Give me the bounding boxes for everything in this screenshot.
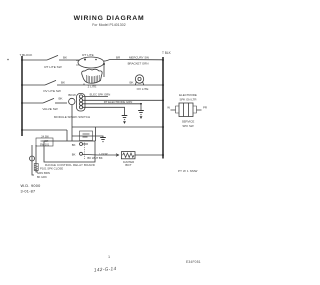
wire BK label	[59, 97, 63, 101]
ground G2	[122, 116, 128, 120]
handwritten note	[94, 266, 117, 273]
motor M1	[30, 156, 35, 161]
doc code	[186, 260, 201, 264]
ground G3	[100, 138, 106, 142]
coil BK/W	[69, 98, 75, 104]
relay K1 box	[80, 131, 93, 141]
svg-text:SPK SW: SPK SW	[182, 124, 194, 128]
lamp shade	[82, 69, 102, 83]
lamp RT LITE (fluorescent)	[78, 57, 104, 68]
wire igniter rung	[83, 153, 120, 156]
svg-text:GRN BRN: GRN BRN	[37, 171, 50, 175]
igniter R1	[121, 152, 135, 159]
wire igniter to bus	[135, 154, 163, 156]
connector receptacle right	[179, 93, 197, 97]
wire rung1 right	[104, 60, 163, 62]
switch RT LITE SW	[47, 55, 58, 60]
wire module to board	[71, 105, 73, 141]
arrow	[116, 154, 119, 157]
svg-text:VALVE SW: VALVE SW	[42, 107, 57, 111]
wire electrode 3	[83, 107, 125, 115]
svg-text:3-01-87: 3-01-87	[21, 190, 36, 194]
wire rung3 to module	[55, 102, 67, 104]
svg-text:PT W 1 NMW: PT W 1 NMW	[178, 169, 198, 173]
wire ground feeder	[72, 136, 103, 137]
svg-text:BK: BK	[72, 143, 76, 147]
svg-text:For Model P1401302: For Model P1401302	[92, 23, 125, 27]
junction dots	[162, 59, 164, 61]
lamp OV LITE	[135, 75, 143, 83]
switch OV LITE SW	[45, 80, 56, 85]
svg-text:LOOP: LOOP	[99, 152, 107, 156]
relay board	[44, 141, 95, 162]
svg-text:OV LITE SW: OV LITE SW	[43, 89, 61, 93]
svg-text:BK/W: BK/W	[68, 93, 76, 97]
switch VALVE SW	[43, 98, 54, 103]
svg-text:BK: BK	[72, 153, 76, 157]
wire label mercury sw	[129, 55, 149, 59]
svg-text:MERCURY SW: MERCURY SW	[129, 55, 149, 59]
left bus L1	[21, 56, 23, 136]
spark module U1	[77, 94, 86, 112]
svg-text:BK: BK	[63, 55, 67, 59]
svg-text:SERVICE: SERVICE	[182, 119, 195, 123]
svg-text:SPK GN LTR: SPK GN LTR	[180, 98, 197, 102]
wire rung4	[22, 129, 67, 131]
svg-text:BK: BK	[59, 97, 63, 101]
subtitle For Model	[92, 23, 125, 27]
footer part number	[21, 184, 41, 188]
ground G1	[83, 104, 141, 111]
svg-text:W.D. 9000: W.D. 9000	[21, 184, 41, 188]
svg-text:BK WHT BK: BK WHT BK	[87, 156, 102, 160]
speck	[7, 59, 9, 61]
door switch box	[41, 136, 49, 139]
wire rung2 right	[57, 84, 163, 86]
resistor element	[34, 164, 38, 171]
wire rung1 mid	[59, 59, 80, 61]
wire electrode 1	[83, 96, 108, 98]
svg-text:OV LITE: OV LITE	[137, 87, 149, 91]
note PT W	[178, 169, 198, 173]
svg-text:BRACKET GRN: BRACKET GRN	[128, 61, 149, 65]
svg-text:W: W	[167, 106, 170, 110]
svg-text:RT LITE SW: RT LITE SW	[44, 65, 61, 69]
wire rung3 left	[22, 102, 43, 104]
wire rung2 left	[22, 84, 45, 86]
page number	[108, 255, 110, 259]
door circuit wires	[32, 145, 34, 175]
svg-text:BK GRN: BK GRN	[37, 176, 47, 179]
svg-text:RT LITE: RT LITE	[82, 53, 93, 57]
wire shade leads	[84, 64, 104, 85]
wire line A to bus	[72, 126, 163, 128]
svg-text:PR: PR	[203, 106, 207, 110]
wire BR label	[116, 56, 121, 60]
svg-text:ELEC SPK GRN: ELEC SPK GRN	[90, 92, 111, 96]
svg-text:P101 SPK CLOSE: P101 SPK CLOSE	[40, 167, 63, 171]
wire BK label rung2	[61, 80, 65, 84]
svg-text:BK: BK	[130, 81, 134, 85]
svg-text:ELECTRODE: ELECTRODE	[179, 93, 197, 97]
svg-text:1: 1	[108, 255, 110, 259]
terminal block label right	[162, 51, 172, 55]
wire electrode 2	[83, 99, 163, 101]
wire BK label	[63, 55, 67, 59]
svg-text:E34F051: E34F051	[186, 260, 201, 264]
svg-text:WIRING DIAGRAM: WIRING DIAGRAM	[74, 15, 145, 22]
svg-text:SW 101: SW 101	[40, 142, 50, 146]
svg-text:BK: BK	[61, 80, 65, 84]
right bus N	[162, 57, 164, 159]
wire rung1 left	[22, 59, 47, 61]
svg-text:T BLK: T BLK	[162, 51, 172, 55]
wire legend lines	[40, 167, 63, 171]
terminal block label left	[20, 53, 33, 57]
wire feeders to board	[67, 127, 96, 141]
wire BK label at lamp	[130, 81, 134, 85]
svg-text:BK/T: BK/T	[125, 163, 132, 167]
relay terminals	[72, 143, 76, 147]
